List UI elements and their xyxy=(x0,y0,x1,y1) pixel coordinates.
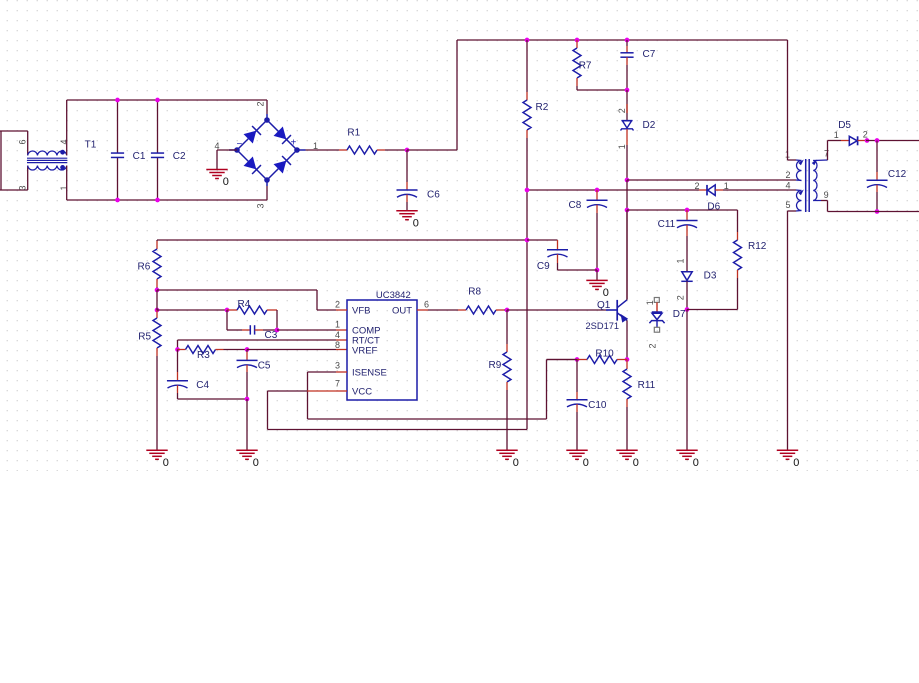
transformer T1 xyxy=(27,131,97,190)
svg-text:D3: D3 xyxy=(704,270,717,281)
D3 pin 1 xyxy=(675,258,685,263)
T1 pin 4 xyxy=(59,139,69,144)
capacitor C7 xyxy=(620,40,655,90)
node y210 left xyxy=(625,208,630,213)
U1 pin VREF label xyxy=(352,346,378,357)
svg-text:1: 1 xyxy=(675,258,685,263)
svg-text:1: 1 xyxy=(335,320,340,330)
svg-text:7: 7 xyxy=(335,379,340,389)
U1 pin VCC xyxy=(336,387,372,398)
wire y210 xyxy=(627,209,738,211)
bridge pin 2 xyxy=(256,101,266,106)
svg-text:2: 2 xyxy=(675,295,685,300)
capacitor C8 xyxy=(569,190,608,270)
wire T2 pin7 up xyxy=(821,200,828,202)
wire top bus to T2 pin1 xyxy=(788,40,797,160)
svg-text:D6: D6 xyxy=(707,201,720,212)
wire Q1 collector xyxy=(626,210,628,300)
resistor R5 xyxy=(138,310,161,450)
svg-text:VREF: VREF xyxy=(352,346,378,357)
wire C5 node to ground xyxy=(246,399,248,450)
op-amp U1 UC3842 box xyxy=(347,290,417,400)
U1 pin 3 label xyxy=(335,361,340,371)
svg-text:C12: C12 xyxy=(888,169,907,180)
svg-text:3: 3 xyxy=(335,361,340,371)
capacitor C4 xyxy=(167,350,210,400)
svg-text:R7: R7 xyxy=(579,60,592,71)
T1 pin 6 xyxy=(18,139,28,144)
wire top bus xyxy=(527,39,788,41)
svg-text:0: 0 xyxy=(583,457,589,469)
ground 0 (T2 pin5) xyxy=(777,450,800,469)
node R8 out xyxy=(505,308,510,313)
wire x627 down xyxy=(626,180,628,300)
T2 pin 4 xyxy=(786,181,791,191)
AC input connector (off-page, left edge) xyxy=(0,131,28,190)
D6 pin 2 xyxy=(695,181,700,191)
wire output rail xyxy=(866,140,919,142)
svg-text:VFB: VFB xyxy=(352,306,370,317)
U1 pin 8 label xyxy=(335,340,340,350)
wire R6-R5 node xyxy=(156,290,158,310)
U1 pin OUT xyxy=(392,306,428,317)
svg-text:3: 3 xyxy=(256,203,266,208)
D5 pin 1 xyxy=(834,130,839,140)
U1 pin RT/CT label xyxy=(352,336,380,347)
resistor R3 xyxy=(178,346,248,362)
D6 pin 1 xyxy=(724,181,729,191)
wire VFB row left xyxy=(157,309,227,311)
bridge diode lower-right xyxy=(275,156,291,172)
T1 pin 1 xyxy=(59,185,69,190)
wire C8 gnd xyxy=(596,270,598,280)
bridge pin 4 xyxy=(215,141,220,151)
node R1 out xyxy=(405,148,410,153)
svg-text:2: 2 xyxy=(695,181,700,191)
svg-text:6: 6 xyxy=(424,300,429,310)
D5 pin 2 xyxy=(863,130,868,140)
svg-text:R11: R11 xyxy=(638,380,656,391)
svg-text:C8: C8 xyxy=(569,200,582,211)
T2 pin 9 xyxy=(824,190,829,200)
bridge minus sign xyxy=(237,139,243,150)
T2 pin 7 xyxy=(824,148,829,158)
svg-text:0: 0 xyxy=(793,457,799,469)
bridge diode lower-left xyxy=(245,158,261,174)
node R5 top xyxy=(155,308,160,313)
node R4 left xyxy=(225,308,230,313)
resistor R1 xyxy=(306,128,408,154)
svg-text:2SD171: 2SD171 xyxy=(586,321,620,331)
capacitor C2 xyxy=(151,100,186,200)
node D5 out xyxy=(865,138,870,143)
D7 pin 2 label xyxy=(648,343,658,348)
capacitor C3 xyxy=(227,325,278,341)
node top bus R7 xyxy=(575,38,580,43)
U1 pin 2 label xyxy=(335,300,340,310)
node y240 at R2 riser xyxy=(525,238,530,243)
svg-text:4: 4 xyxy=(335,330,340,340)
svg-text:0: 0 xyxy=(163,457,169,469)
svg-text:1: 1 xyxy=(617,144,627,149)
svg-text:8: 8 xyxy=(335,340,340,350)
D7 pin 1 label xyxy=(645,300,655,305)
ground 0 (C6) xyxy=(396,211,419,230)
svg-text:ISENSE: ISENSE xyxy=(352,368,387,379)
wire R4 right drop xyxy=(276,310,278,330)
resistor R6 xyxy=(138,240,162,290)
capacitor C1 xyxy=(111,100,146,200)
wire R1 to top bus xyxy=(407,40,527,150)
svg-text:C2: C2 xyxy=(173,151,186,162)
svg-text:VCC: VCC xyxy=(352,387,372,398)
svg-text:C6: C6 xyxy=(427,189,440,200)
T1 pin 3 xyxy=(18,185,28,190)
svg-text:3: 3 xyxy=(18,185,28,190)
svg-text:D7: D7 xyxy=(673,309,686,320)
svg-text:−: − xyxy=(237,139,243,150)
wire C4-C5 bottom xyxy=(178,398,248,400)
wire Q1 emitter xyxy=(626,320,628,359)
D2 pin 1 xyxy=(617,144,627,149)
node C12 bottom xyxy=(875,209,880,214)
bridge diode upper-left xyxy=(245,126,261,142)
ground 0 (D3) xyxy=(676,450,699,469)
node C2 top xyxy=(155,98,160,103)
node top bus R2 xyxy=(525,38,530,43)
svg-text:R8: R8 xyxy=(468,286,481,297)
wire R6 node to VFB riser xyxy=(157,290,336,310)
wire y240 xyxy=(157,239,527,241)
svg-text:0: 0 xyxy=(633,457,639,469)
diode D2 xyxy=(621,90,656,180)
wire R10 left to C10 xyxy=(547,359,578,361)
svg-text:0: 0 xyxy=(413,217,419,229)
node C12 top xyxy=(875,138,880,143)
svg-text:2: 2 xyxy=(617,108,627,113)
node C2 bottom xyxy=(155,198,160,203)
U1 pin VFB xyxy=(336,306,370,317)
svg-text:C1: C1 xyxy=(133,151,146,162)
node R10 left xyxy=(575,357,580,362)
wire bottom rail xyxy=(67,172,267,200)
capacitor C11 xyxy=(658,210,698,272)
svg-text:+: + xyxy=(291,138,297,149)
wire D3 to ground xyxy=(686,310,688,451)
svg-text:2: 2 xyxy=(863,130,868,140)
svg-text:T1: T1 xyxy=(85,139,97,150)
resistor R12 xyxy=(687,210,767,310)
capacitor C10 xyxy=(567,360,607,451)
wire VREF xyxy=(247,349,347,351)
wire T2 pin5 to ground xyxy=(788,211,797,450)
node top bus C7 xyxy=(625,38,630,43)
svg-text:7: 7 xyxy=(824,148,829,158)
U1 pin 6 label xyxy=(424,300,429,310)
svg-text:OUT: OUT xyxy=(392,306,412,317)
U1 pin 4 label xyxy=(335,330,340,340)
wire R4 left drop xyxy=(226,310,228,330)
svg-text:0: 0 xyxy=(223,176,229,188)
node C5 top xyxy=(245,347,250,352)
wire VCC loop xyxy=(268,391,528,430)
node D3/R12 xyxy=(685,307,690,312)
T2 pin 5 xyxy=(786,200,791,210)
T2 pin 2 xyxy=(786,170,791,180)
ground 0 (bridge) xyxy=(206,170,229,189)
node R10 right xyxy=(625,357,630,362)
bridge rectifier (diamond) xyxy=(229,114,306,186)
wire pin2 row xyxy=(627,179,796,181)
node C11 top xyxy=(685,208,690,213)
svg-text:C11: C11 xyxy=(658,219,676,230)
svg-text:C9: C9 xyxy=(537,261,550,272)
node R3 left xyxy=(175,347,180,352)
resistor R4 xyxy=(227,299,277,314)
svg-text:0: 0 xyxy=(603,287,609,299)
node C5 bottom xyxy=(245,397,250,402)
svg-text:R10: R10 xyxy=(595,348,614,359)
resistor R11 xyxy=(623,360,656,451)
svg-text:2: 2 xyxy=(648,343,658,348)
svg-text:C4: C4 xyxy=(196,380,209,391)
svg-text:R2: R2 xyxy=(536,102,549,113)
node D2 to pin2 wire xyxy=(625,178,630,183)
svg-text:2: 2 xyxy=(256,101,266,106)
ground 0 (R5) xyxy=(146,450,169,469)
resistor R10 xyxy=(577,348,627,363)
resistor R9 xyxy=(489,310,512,450)
svg-text:0: 0 xyxy=(253,457,259,469)
svg-text:2: 2 xyxy=(786,170,791,180)
U1 pin 1 label xyxy=(335,320,340,330)
U1 pin ISENSE xyxy=(336,368,387,379)
capacitor C12 xyxy=(867,141,907,212)
wire COMP xyxy=(277,329,347,331)
svg-text:0: 0 xyxy=(693,457,699,469)
svg-text:6: 6 xyxy=(18,139,28,144)
wire top rail xyxy=(67,100,267,150)
U1 pin 7 label xyxy=(335,379,340,389)
svg-text:C10: C10 xyxy=(588,400,607,411)
node C1 top xyxy=(115,98,120,103)
node C1 bottom xyxy=(115,198,120,203)
node R6 bottom xyxy=(155,288,160,293)
U1 pin COMP xyxy=(352,326,381,337)
ground 0 (C4/C5) xyxy=(236,450,259,469)
D2 pin 2 xyxy=(617,108,627,113)
wire pin7 to D5 xyxy=(828,141,850,161)
node y190 at R2 riser xyxy=(525,188,530,193)
capacitor C6 xyxy=(397,150,441,211)
node y190 at C8 xyxy=(595,188,600,193)
resistor R8 xyxy=(428,286,507,314)
svg-text:1: 1 xyxy=(724,181,729,191)
svg-text:1: 1 xyxy=(834,130,839,140)
diode D5 xyxy=(838,120,866,145)
ground 0 (R11) xyxy=(616,450,639,469)
svg-text:R6: R6 xyxy=(138,262,151,273)
wire bridge minus to ground xyxy=(217,150,237,170)
svg-text:9: 9 xyxy=(824,190,829,200)
transformer T2 xyxy=(796,159,828,212)
svg-text:C7: C7 xyxy=(643,49,656,60)
T2 pin 1 xyxy=(785,149,790,159)
bridge pin 1 xyxy=(313,141,318,151)
wire output return rail xyxy=(828,201,919,212)
resistor R2 xyxy=(523,40,549,138)
svg-text:D5: D5 xyxy=(838,120,851,131)
node COMP xyxy=(275,328,280,333)
svg-text:C5: C5 xyxy=(258,360,271,371)
svg-text:0: 0 xyxy=(513,457,519,469)
svg-text:2: 2 xyxy=(335,300,340,310)
bridge pin 3 xyxy=(256,203,266,208)
svg-text:4: 4 xyxy=(786,181,791,191)
svg-text:R4: R4 xyxy=(238,299,251,310)
ground 0 (C10) xyxy=(566,450,589,469)
svg-text:1: 1 xyxy=(645,300,655,305)
node R7/C7 bottom xyxy=(625,88,630,93)
svg-text:R12: R12 xyxy=(748,241,767,252)
capacitor C9 xyxy=(527,240,597,272)
svg-text:Q1: Q1 xyxy=(597,300,611,311)
diode D3 xyxy=(681,270,717,309)
bridge diode upper-right xyxy=(275,128,291,144)
wire RTCT xyxy=(178,340,348,350)
bridge plus sign xyxy=(291,138,297,149)
wire R2 down (VCC riser) xyxy=(526,138,528,430)
D3 pin 2 xyxy=(675,295,685,300)
node C8 bottom xyxy=(595,268,600,273)
ground 0 (R9) xyxy=(496,450,519,469)
svg-text:5: 5 xyxy=(786,200,791,210)
transistor Q1 2SD171 xyxy=(586,300,628,331)
ground 0 (C8/C9) xyxy=(586,280,609,299)
wire y190 left xyxy=(527,189,699,191)
svg-text:R3: R3 xyxy=(197,350,210,361)
diode D6 xyxy=(699,185,796,212)
wire R8 to Q1 base xyxy=(507,309,606,311)
svg-text:R5: R5 xyxy=(138,332,151,343)
resistor R7 xyxy=(573,40,627,90)
wire ISENSE loop xyxy=(308,360,578,420)
svg-text:D2: D2 xyxy=(643,120,656,131)
capacitor C5 xyxy=(237,350,271,400)
svg-text:R1: R1 xyxy=(347,128,360,139)
diode D7 xyxy=(649,298,686,333)
svg-text:R9: R9 xyxy=(489,360,502,371)
svg-text:UC3842: UC3842 xyxy=(376,290,411,301)
